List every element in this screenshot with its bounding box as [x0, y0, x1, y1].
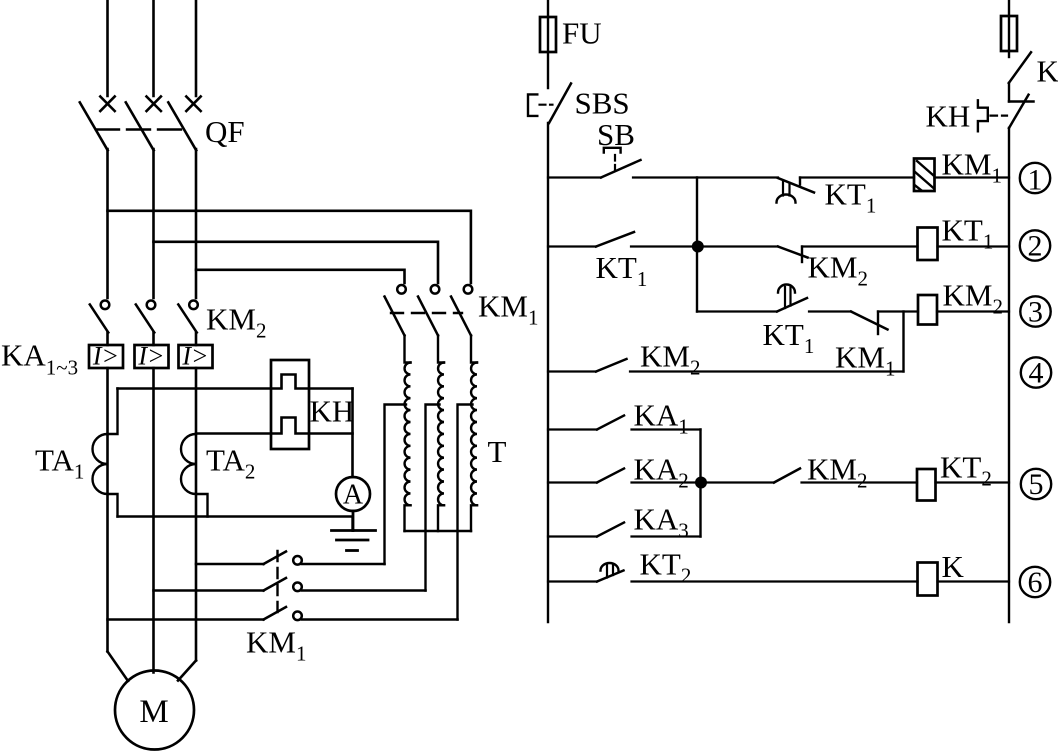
contactor KM2 main pole 3 [178, 301, 198, 333]
contact KA3 NO [597, 502, 689, 543]
node circled 4 [1021, 357, 1051, 390]
relay KA1 box I> [89, 342, 123, 371]
wire motor lead 3 diagonal [178, 661, 196, 681]
wire phase L3 incoming [195, 1, 198, 96]
svg-text:5: 5 [1029, 468, 1044, 501]
wire rung6 left segment [548, 580, 597, 582]
wire rung1 left segment [548, 176, 601, 178]
wire right rail segment [1008, 83, 1010, 102]
wire motor lead 1 diagonal [108, 652, 129, 682]
wire rung4 riser to rung3 [902, 312, 904, 372]
wire rung2 middle segment [631, 245, 778, 247]
svg-text:QF: QF [205, 114, 245, 149]
coil KT2 [917, 450, 992, 501]
fuse FU [540, 16, 602, 53]
svg-text:KM1: KM1 [942, 147, 1002, 188]
svg-text:6: 6 [1028, 566, 1043, 599]
svg-text:KT2: KT2 [940, 450, 992, 491]
contact KT2 NO delayed rung6 [597, 547, 691, 588]
svg-text:KH: KH [926, 99, 971, 134]
wire KH right side down to ammeter [351, 389, 354, 478]
svg-text:KA1~3: KA1~3 [1, 338, 78, 380]
wire rung6 right segment [632, 580, 918, 582]
node circled 5 [1021, 468, 1051, 501]
wire rung KA2 middle [632, 481, 775, 483]
svg-text:I>: I> [137, 342, 164, 371]
svg-text:KM1: KM1 [246, 625, 306, 666]
svg-text:2: 2 [1028, 230, 1043, 263]
wire T star bus [405, 530, 472, 532]
ammeter A [336, 477, 370, 511]
contactor KM1 main pole 3 [451, 285, 472, 336]
transformer T winding 2 [438, 336, 444, 532]
svg-text:TA2: TA2 [206, 443, 255, 484]
svg-text:T: T [488, 434, 507, 469]
wire KH heater top crank from TA1 [118, 375, 353, 389]
wire rung3 middle segment [809, 310, 851, 312]
contactor KM1 lower pole 1 [196, 552, 385, 565]
svg-text:K: K [1037, 54, 1058, 89]
thermal relay KH NC contact [926, 95, 1034, 134]
svg-text:SB: SB [597, 117, 635, 152]
contactor KM1 lower linkage dashed [276, 551, 278, 613]
motor M [115, 671, 194, 750]
contactor KM2 main pole 2 [136, 301, 156, 333]
svg-text:K: K [942, 549, 965, 584]
svg-text:KT1: KT1 [825, 177, 877, 218]
wire rung KA1 left segment [548, 428, 597, 430]
wire rung2 left segment [548, 245, 596, 247]
svg-text:FU: FU [562, 16, 602, 51]
svg-text:SBS: SBS [575, 86, 630, 121]
svg-text:A: A [343, 480, 364, 511]
svg-text:KM2: KM2 [640, 339, 700, 380]
wire phase L2 from QF down [152, 149, 155, 298]
breaker QF pole 3 blade [168, 102, 196, 150]
node circled 1 [1020, 163, 1050, 197]
wire rung KA2 left segment [548, 481, 597, 483]
wire left control rail top [547, 1, 549, 88]
wire rung4 segment to riser [630, 370, 904, 372]
svg-text:KM1: KM1 [478, 289, 538, 330]
wire rung KA1 to branch [632, 428, 701, 430]
svg-text:KM2: KM2 [807, 452, 867, 493]
svg-text:3: 3 [1028, 296, 1043, 329]
svg-text:KT1: KT1 [763, 317, 815, 358]
svg-text:KM1: KM1 [835, 340, 895, 381]
wire rung3 right segment [878, 310, 918, 312]
pushbutton SBS stop NC [528, 84, 630, 124]
node junction dot rung2 [692, 241, 704, 253]
wire L1 KA box down to motor bend [106, 368, 109, 652]
wire phase L1 incoming [106, 1, 109, 96]
svg-text:1: 1 [1028, 164, 1043, 197]
svg-text:KA1: KA1 [634, 398, 689, 439]
breaker QF linkage dashed [96, 128, 188, 130]
svg-text:KH: KH [310, 394, 355, 429]
svg-text:I>: I> [92, 342, 119, 371]
contact K NC in right rail [1009, 52, 1058, 88]
contact KT1 NC delayed rung1 [777, 177, 877, 218]
node junction dot KA2 [695, 477, 707, 489]
contactor KM1 linkage dashed [391, 312, 462, 314]
node circled 3 [1020, 296, 1050, 329]
coil K [918, 549, 965, 596]
breaker QF pole 1 blade [80, 102, 108, 150]
contact KM2 NO rung2 [778, 247, 868, 291]
svg-text:I>: I> [181, 342, 208, 371]
svg-text:KT1: KT1 [596, 250, 648, 291]
wire T tap 1 down to KM1 lower pole 1 [385, 405, 407, 565]
wire phase L2 incoming [152, 1, 155, 96]
wire tap from L3 to KM1 pole 1 [196, 270, 405, 283]
wire L3 KA box down to motor bend [195, 368, 198, 661]
wire L1 contact to KA box [106, 333, 109, 346]
wire rung6 coil to rail [938, 580, 1010, 582]
node circled 2 [1020, 230, 1050, 263]
wire rung1 middle segment [633, 176, 778, 178]
fuse right [1001, 16, 1017, 51]
contactor KM1 main pole 1 [385, 285, 406, 336]
wire left control rail [547, 123, 549, 622]
svg-text:KM2: KM2 [206, 302, 266, 343]
wire right control rail top [1008, 1, 1010, 57]
contact KM1 NC rung3 [835, 312, 895, 381]
wire right control rail [1008, 128, 1010, 622]
wire rung4 left segment [548, 370, 596, 372]
wire phase L1 from QF down [106, 149, 109, 298]
breaker QF pole 1 X mark [100, 97, 114, 112]
current transformer TA2 [181, 434, 208, 517]
svg-text:KM2: KM2 [808, 250, 868, 291]
wire rung1 right segment [800, 176, 914, 178]
transformer T winding 1 [405, 336, 411, 532]
wire L2 KA box down to motor [152, 368, 155, 673]
contactor KM2 main pole 1 [90, 301, 109, 333]
wire L2 contact to KA box [152, 333, 155, 346]
wire rung2 right segment [802, 245, 918, 247]
contactor KM1 lower pole 2 [154, 578, 426, 591]
wire tap from L1 to KM1 pole 3 [108, 211, 471, 283]
svg-text:4: 4 [1029, 357, 1044, 390]
wire rung5 coil to rail [936, 481, 1010, 483]
ground symbol [332, 511, 376, 551]
contact KT1 NO rung2 [596, 232, 648, 291]
transformer T winding 3 [471, 336, 477, 532]
wire rung1 coil to rail [935, 176, 1010, 178]
wire KA branch vertical [699, 430, 701, 537]
contact KM2 NO rung4 [596, 339, 700, 380]
contact KT1 NO delayed rung3 [763, 285, 815, 359]
wire rung KA3 to branch [632, 535, 701, 537]
coil KM1 hatched [914, 147, 1002, 192]
node circled 6 [1020, 566, 1050, 599]
wire L3 contact to KA box [195, 333, 198, 346]
pushbutton SB start NO [597, 117, 641, 178]
wire rung3 coil to rail [937, 310, 1009, 312]
coil KM2 [918, 278, 1003, 325]
svg-text:KA2: KA2 [634, 452, 689, 493]
wire rung KA3 left segment [548, 535, 597, 537]
contact KA1 NO [597, 398, 689, 439]
wire KH heater bottom crank from TA2 [196, 418, 353, 434]
wire T tap 2 down to KM1 lower pole 2 [426, 405, 440, 591]
contact KM2 NO rung5 [774, 452, 867, 493]
breaker QF pole 2 blade [126, 102, 154, 150]
wire rung2 coil to rail [938, 245, 1010, 247]
thermal relay KH heater box [271, 360, 309, 449]
breaker QF pole 2 X mark [147, 97, 161, 112]
current transformer TA1 [93, 389, 118, 517]
wire T tap 3 down to KM1 lower pole 3 [458, 405, 473, 620]
coil KT1 [918, 213, 994, 261]
relay KA3 box I> [179, 342, 213, 371]
breaker QF pole 3 X mark [186, 97, 200, 112]
contactor KM1 lower pole 3 [108, 607, 458, 620]
contact KA2 NO [597, 452, 689, 493]
relay KA2 box I> [135, 342, 169, 371]
wire CT secondary common to ground [118, 517, 353, 531]
svg-text:TA1: TA1 [35, 443, 84, 484]
wire rung3 left segment [697, 310, 777, 312]
contactor KM1 main pole 2 [418, 285, 439, 336]
wire tap from L2 to KM1 pole 2 [154, 242, 439, 283]
wire branch vertical rung1 to rung3 [696, 178, 698, 312]
wire phase L3 from QF down [195, 149, 198, 298]
wire rung5 right segment [802, 481, 918, 483]
svg-text:M: M [139, 694, 168, 730]
